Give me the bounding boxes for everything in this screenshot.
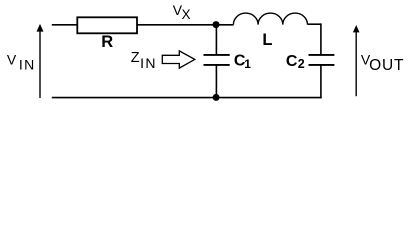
wire top-right segment bbox=[308, 23, 321, 25]
node VX junction dot top bbox=[213, 21, 220, 28]
block arrow ZIN pointer bbox=[162, 51, 195, 68]
svg-text:OUT: OUT bbox=[369, 57, 404, 74]
capacitor C1 label bbox=[234, 53, 251, 71]
resistor R1 body bbox=[77, 17, 137, 33]
wire C1 stub lower bbox=[215, 65, 217, 98]
capacitor C1 plates bbox=[204, 55, 230, 65]
voltage arrow VOUT bbox=[353, 25, 360, 96]
svg-text:IN: IN bbox=[140, 55, 157, 71]
wire right vertical upper bbox=[320, 23, 322, 54]
wire C1 stub upper bbox=[215, 25, 217, 55]
label ZIN bbox=[131, 50, 157, 71]
svg-text:1: 1 bbox=[244, 57, 251, 71]
svg-text:2: 2 bbox=[298, 57, 305, 71]
svg-text:R: R bbox=[101, 33, 113, 51]
wire top-middle segment bbox=[137, 24, 234, 26]
junction dot bottom node bbox=[213, 94, 220, 101]
svg-text:L: L bbox=[262, 31, 272, 49]
wire right vertical lower bbox=[320, 65, 322, 99]
inductor L1 bbox=[233, 13, 307, 25]
voltage arrow VIN bbox=[37, 24, 44, 98]
svg-text:Z: Z bbox=[131, 50, 140, 66]
svg-text:X: X bbox=[182, 7, 191, 22]
svg-text:IN: IN bbox=[19, 56, 36, 72]
svg-text:V: V bbox=[7, 52, 17, 68]
wire top-left segment bbox=[52, 24, 78, 26]
capacitor C2 plates bbox=[309, 55, 335, 65]
svg-text:C: C bbox=[286, 53, 298, 70]
label VX bbox=[173, 2, 191, 22]
capacitor C2 label bbox=[286, 53, 305, 71]
wire bottom rail bbox=[52, 97, 322, 99]
label VOUT bbox=[361, 52, 404, 75]
label VIN bbox=[7, 52, 36, 73]
